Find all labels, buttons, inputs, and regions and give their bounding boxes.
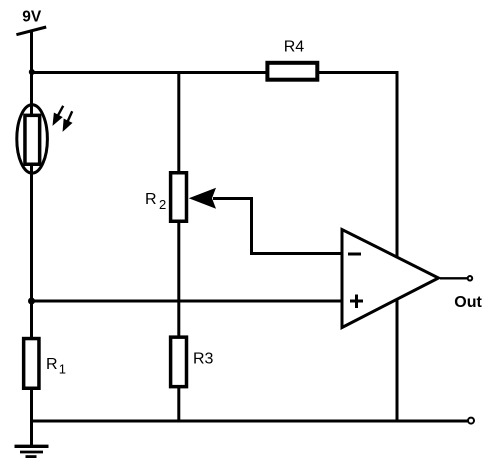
svg-text:1: 1 <box>59 362 66 377</box>
svg-text:Out: Out <box>454 294 482 311</box>
svg-text:9V: 9V <box>22 9 42 26</box>
svg-text:R3: R3 <box>193 351 214 368</box>
svg-text:R4: R4 <box>284 39 305 56</box>
svg-text:R: R <box>145 191 157 208</box>
svg-text:R: R <box>46 356 58 373</box>
svg-text:2: 2 <box>159 197 166 212</box>
